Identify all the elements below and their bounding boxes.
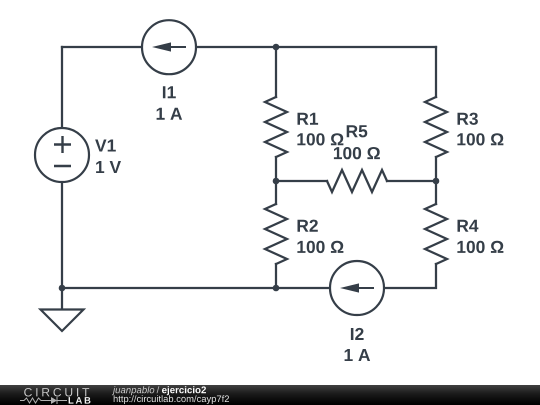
- footer bar: [0, 385, 540, 405]
- label R5: [347, 125, 368, 137]
- wire top rail right (I1 to right corner): [196, 46, 436, 48]
- wire bottom rail left (to I2): [62, 287, 330, 289]
- wire middle rail right of R5: [387, 180, 436, 182]
- credit title ejercicio2: [162, 386, 206, 395]
- wire middle branch R1 top lead: [275, 47, 277, 97]
- wire right branch upper lead: [435, 47, 437, 97]
- credit separator: [157, 386, 160, 393]
- value label 100 Ω (R2): [297, 241, 343, 253]
- wire bottom rail right (I2 to right corner): [384, 264, 436, 288]
- wire right branch between R3 and R4: [435, 157, 437, 204]
- value label 1 A (I1): [157, 108, 183, 120]
- voltage source V1: [35, 128, 89, 182]
- CircuitLab logo symbol (resistor-diode wire): [20, 397, 67, 404]
- wire ground stub: [61, 288, 63, 309]
- label R3: [458, 113, 478, 125]
- current source I2: [330, 261, 384, 315]
- label R2: [298, 220, 318, 232]
- node junction middle left: [273, 178, 280, 185]
- node junction bottom left: [59, 285, 66, 292]
- credit user juanpablo: [112, 386, 154, 395]
- node junction top middle: [273, 44, 280, 51]
- resistor R5: [327, 170, 387, 192]
- resistor R2: [265, 204, 287, 264]
- resistor R4: [425, 204, 447, 264]
- ground: [41, 310, 84, 332]
- label I1: [163, 86, 176, 98]
- value label 100 Ω (R5): [334, 147, 380, 159]
- wire top rail left (to I1): [62, 46, 142, 48]
- label I2: [351, 328, 364, 340]
- logo text CIRCUIT: [24, 388, 89, 397]
- wire left vertical top (V1 top to top rail): [61, 47, 63, 128]
- credit url: [114, 395, 229, 404]
- resistor R1: [265, 97, 287, 157]
- wire left vertical bottom (V1 to bottom rail): [61, 182, 63, 288]
- label R4: [458, 220, 479, 232]
- value label 1 A (I2): [345, 349, 371, 361]
- resistor R3: [425, 97, 447, 157]
- current source I1: [142, 20, 196, 74]
- wire middle branch between R1 and R2: [275, 157, 277, 204]
- value label 100 Ω (R1): [297, 133, 343, 145]
- node junction bottom middle: [273, 285, 280, 292]
- wire middle branch R2 bottom lead: [275, 264, 277, 288]
- logo text LAB: [69, 397, 91, 404]
- label R1: [298, 113, 319, 125]
- wire middle rail left of R5: [276, 180, 327, 182]
- value label 1 V: [96, 161, 121, 173]
- node junction middle right: [433, 178, 440, 185]
- value label 100 Ω (R4): [457, 241, 503, 253]
- label V1: [95, 140, 116, 152]
- value label 100 Ω (R3): [457, 133, 503, 145]
